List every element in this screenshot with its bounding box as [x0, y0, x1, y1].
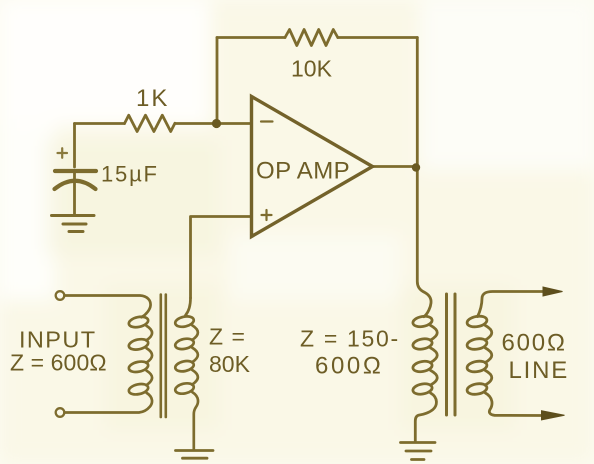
node B output dot [412, 163, 420, 171]
T1 primary winding arc 1 [146, 326, 152, 341]
svg-text:Z =: Z = [209, 324, 246, 350]
wire op-amp output [373, 165, 418, 168]
T1 core line right [165, 295, 168, 418]
T1 secondary winding arc 2 [192, 348, 198, 363]
svg-text:Z = 600Ω: Z = 600Ω [10, 350, 107, 376]
T2 secondary winding loop 3 [466, 360, 487, 374]
svg-text:10K: 10K [291, 56, 333, 82]
T2 primary winding loop 2 [412, 337, 433, 350]
wire T1 primary bottom to terminal [65, 393, 153, 413]
svg-text:80K: 80K [209, 351, 251, 377]
T2 core line right [454, 294, 457, 415]
T1 primary winding arc 3 [146, 371, 152, 386]
T1 primary winding loop 1 [128, 315, 149, 329]
non-inverting input marker + [262, 210, 272, 220]
wire terminal top to T1 primary [65, 296, 151, 318]
T2 primary winding arc 2 [430, 348, 437, 363]
T2 secondary winding loop 4 [466, 382, 487, 396]
resistor R2 10K [285, 30, 338, 46]
svg-text:600Ω: 600Ω [502, 330, 567, 357]
T2 secondary winding arc 3 [485, 370, 492, 385]
wire T2 primary bottom to ground [415, 393, 436, 441]
T2 primary entry from output node [424, 292, 432, 317]
T2 primary winding loop 3 [412, 360, 433, 373]
T2 secondary winding loop 1 [466, 315, 487, 329]
svg-text:15µF: 15µF [101, 162, 159, 187]
capacitor C1 lead to ground [73, 173, 76, 214]
wire input left segment [75, 122, 125, 125]
node A summing junction dot [212, 119, 221, 128]
T1 secondary winding arc 3 [192, 370, 198, 385]
resistor R1 1K [125, 115, 175, 131]
arrow output line top [543, 287, 563, 296]
wire summing node up to feedback [216, 38, 219, 124]
T1 secondary winding loop 2 [174, 337, 194, 350]
T1 primary winding loop 2 [128, 338, 149, 352]
T2 secondary winding arc 1 [485, 325, 492, 340]
wire feedback top left segment [217, 36, 285, 39]
T1 secondary winding arc 1 [192, 325, 198, 340]
wire output node down to T2 primary [417, 168, 423, 292]
T1 primary winding arc 2 [146, 348, 152, 363]
T2 secondary winding arc 2 [485, 348, 492, 363]
wire R1 to op-amp inverting input [175, 122, 252, 125]
terminal input bottom [56, 408, 65, 417]
T2 secondary winding loop 2 [466, 337, 487, 351]
inverting input marker - [261, 120, 273, 122]
ground G2 below T1 [176, 451, 214, 459]
T1 core line left [160, 295, 163, 418]
svg-text:OP AMP: OP AMP [256, 158, 350, 185]
T1 secondary winding loop 1 [174, 315, 194, 328]
T1 secondary winding loop 3 [174, 359, 194, 372]
arrow output line bottom [542, 411, 565, 420]
T2 primary winding arc 1 [430, 325, 437, 340]
transformer T1 input [56, 291, 198, 449]
wire T1 secondary to ground [192, 392, 198, 449]
capacitor C1 top plate [55, 169, 96, 173]
T2 core line left [445, 294, 448, 415]
ground G3 below T2 [401, 443, 436, 460]
wire op-amp non-inverting input [191, 217, 252, 299]
terminal input top [56, 291, 65, 300]
T1 secondary winding loop 4 [174, 382, 194, 395]
T1 primary winding loop 4 [128, 382, 149, 396]
capacitor C1 lead from input wire [73, 124, 76, 168]
transformer T2 output [412, 292, 545, 442]
polarity + for C1 [58, 148, 68, 158]
T2 primary winding loop 4 [412, 382, 433, 395]
svg-text:600Ω: 600Ω [315, 353, 383, 380]
capacitor C1 curved plate [55, 181, 96, 189]
svg-text:LINE: LINE [509, 357, 570, 384]
wire feedback down to output node [416, 38, 419, 168]
wire feedback top right segment [338, 36, 418, 39]
T1 primary winding loop 3 [128, 360, 149, 374]
svg-text:1K: 1K [136, 85, 169, 112]
svg-text:Z = 150-: Z = 150- [300, 326, 400, 352]
wire op-amp + down to T1 secondary [186, 298, 191, 315]
T2 secondary bottom exit wire to line [485, 393, 545, 416]
ground G1 below capacitor [52, 216, 95, 232]
op-amp U1 [252, 97, 373, 237]
T2 secondary top exit to line [478, 292, 546, 317]
T2 primary winding arc 3 [430, 370, 437, 385]
T2 primary winding loop 1 [412, 315, 433, 328]
